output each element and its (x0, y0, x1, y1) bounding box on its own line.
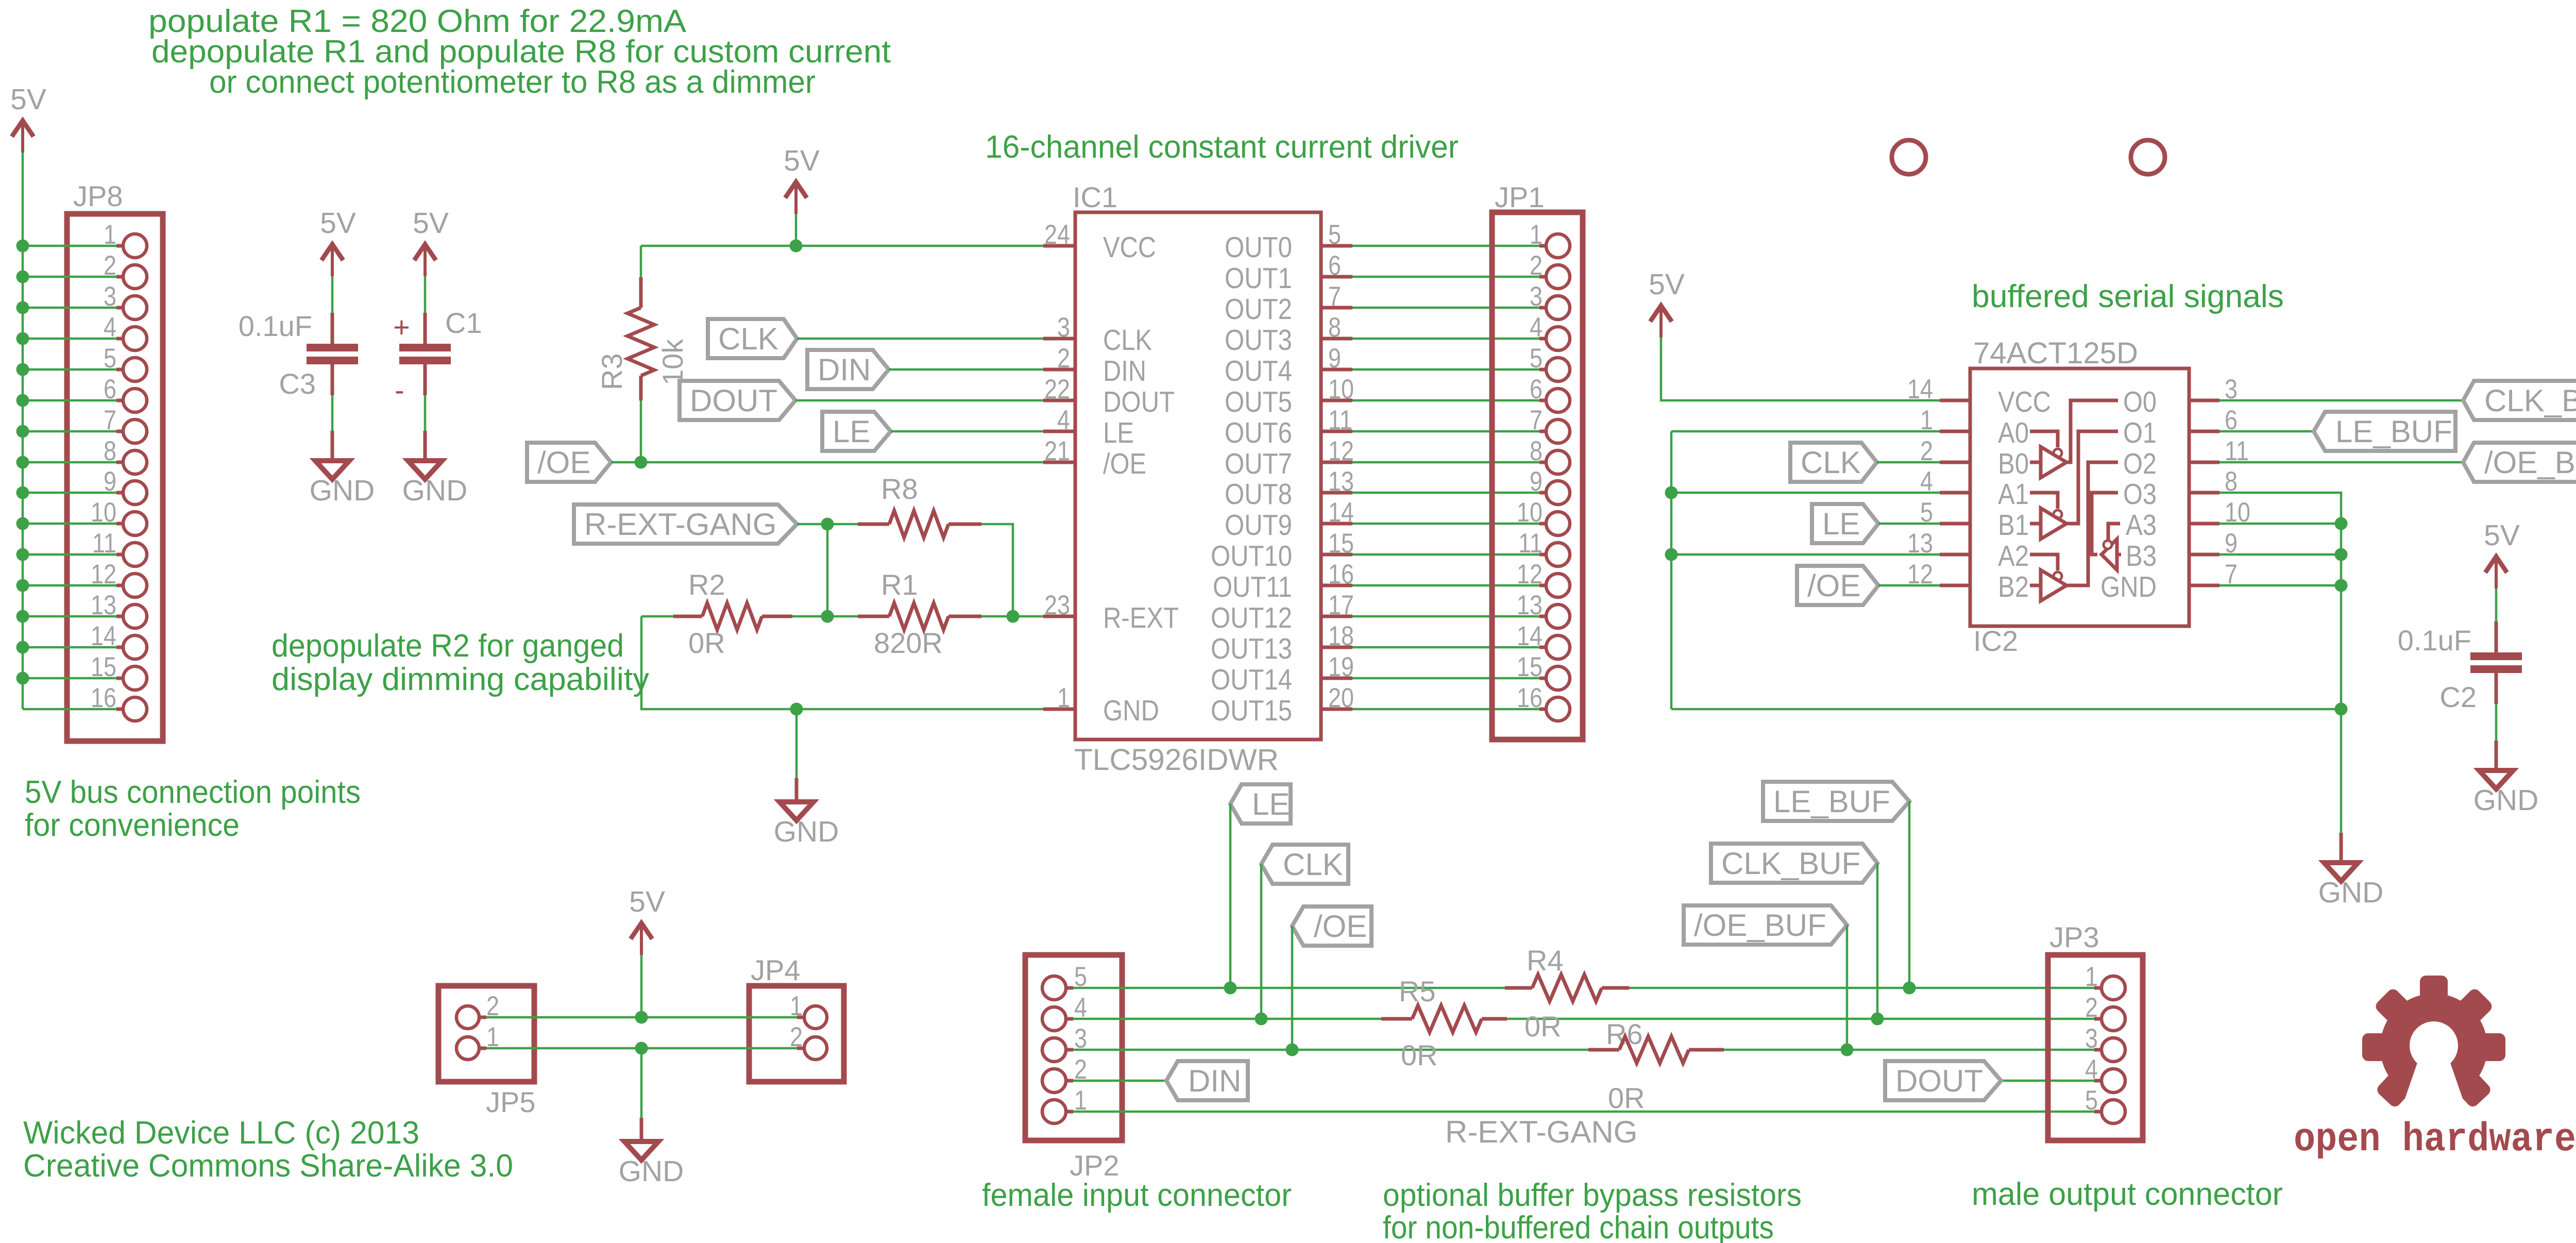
svg-text:O1: O1 (2123, 416, 2157, 449)
svg-text:20: 20 (1328, 683, 1354, 713)
svg-text:Wicked Device LLC (c) 2013: Wicked Device LLC (c) 2013 (23, 1115, 419, 1151)
svg-text:3: 3 (104, 281, 116, 312)
wire 5V to row (640, 955, 643, 1017)
net flag CLK_BUF (bottom) (1711, 844, 1877, 883)
pin stub JP1-13 (1539, 615, 1547, 618)
pin 4 stub of IC2 (A1) (1940, 491, 1970, 495)
junction on 5V bus at JP8 pin 10 (16, 517, 29, 530)
wire junction down to R-EXT row (826, 524, 829, 616)
pin stub JP8-16 (116, 708, 124, 711)
svg-text:for convenience: for convenience (25, 808, 240, 843)
pin 3 stub of IC1 (CLK) (1043, 337, 1075, 341)
wire node to R1 (827, 615, 858, 618)
svg-text:B0: B0 (1998, 447, 2029, 480)
svg-text:R1: R1 (881, 568, 918, 601)
svg-text:LE: LE (1822, 507, 1860, 541)
mounting hole H1 (1892, 140, 1926, 174)
pin circle JP8-13 (123, 604, 147, 628)
pin of R6 right (1689, 1048, 1724, 1052)
svg-text:11: 11 (1328, 405, 1352, 435)
svg-text:2: 2 (1920, 436, 1933, 466)
svg-text:GND: GND (619, 1155, 684, 1188)
junction CLK/row2 (1255, 1013, 1268, 1026)
wire IC2 A0 net (1671, 430, 1940, 433)
svg-text:A1: A1 (1998, 478, 2029, 511)
wire 5V to IC2 pin 14 (1661, 338, 1940, 400)
pin stub JP8-7 (116, 430, 124, 433)
wire IC1 OUT0 to JP1 pin 1 (1352, 245, 1539, 247)
svg-text:9: 9 (1328, 343, 1341, 374)
pin 1 stub of IC2 (A0) (1940, 430, 1970, 433)
wire R2 down to GND rail (641, 616, 1043, 709)
wire IC1 OUT11 to JP1 pin 12 (1352, 584, 1539, 587)
svg-text:3: 3 (1057, 312, 1070, 343)
pin circle JP8-10 (123, 512, 147, 535)
pin stub JP8-15 (116, 677, 124, 680)
pin 6 stub of IC2 (O1) (2189, 430, 2219, 433)
svg-text:OUT2: OUT2 (1225, 293, 1292, 326)
svg-text:16: 16 (1517, 683, 1543, 713)
svg-text:CLK: CLK (1801, 445, 1861, 480)
svg-text:16: 16 (1328, 559, 1354, 590)
svg-text:TLC5926IDWR: TLC5926IDWR (1074, 743, 1279, 777)
wire /OE to IC2 pin 12 (1878, 584, 1940, 587)
pin stub JP3-2 (2094, 1017, 2102, 1021)
pin circle JP8-14 (123, 635, 147, 659)
svg-text:1: 1 (1530, 220, 1543, 250)
svg-text:4: 4 (1057, 405, 1070, 435)
svg-text:/OE: /OE (1807, 568, 1860, 603)
net flag /OE_BUF (bottom) (1684, 905, 1847, 945)
svg-text:12: 12 (1517, 559, 1543, 590)
wire 5V bus to JP8 pin 2 (23, 276, 116, 278)
connector JP2 body (1025, 955, 1122, 1140)
svg-text:R-EXT-GANG: R-EXT-GANG (584, 507, 776, 542)
pin circle JP2-2 (1042, 1069, 1066, 1093)
svg-text:13: 13 (91, 590, 116, 620)
net flag CLK (IC1) (708, 319, 797, 358)
junction at 5V/VCC (790, 240, 803, 253)
pin of R3 bottom (639, 376, 643, 400)
pin stub JP8-5 (116, 368, 124, 372)
wire 5V bus to JP8 pin 4 (23, 338, 116, 340)
svg-text:R2: R2 (688, 568, 725, 601)
pin 5 stub of IC2 (B1) (1940, 522, 1970, 526)
wire CLK drop (1260, 864, 1263, 1019)
connector JP3 body (2048, 955, 2143, 1140)
wire /OE drop (1291, 926, 1294, 1050)
svg-text:VCC: VCC (1998, 385, 2051, 418)
svg-text:1: 1 (1920, 405, 1933, 435)
junction CLK_BUF/row2 (1871, 1013, 1884, 1026)
wire row1 JP2.5 to R4 (1073, 987, 1505, 989)
wire 5V bus to JP8 pin 15 (23, 677, 116, 680)
net flag /OE (bottom) (1292, 906, 1371, 946)
svg-text:R-EXT: R-EXT (1103, 601, 1179, 634)
pin 13 stub of IC2 (A2) (1940, 553, 1970, 557)
pin circle JP1-11 (1546, 543, 1570, 566)
junction on 5V bus at JP8 pin 15 (16, 672, 29, 685)
svg-text:DOUT: DOUT (690, 383, 777, 418)
resistor R2 (702, 603, 762, 630)
pin 20 stub of IC1 (OUT15) (1321, 708, 1352, 711)
wire IC1 OUT10 to JP1 pin 11 (1352, 553, 1539, 556)
svg-text:11: 11 (1518, 528, 1543, 559)
pin of R8 left (858, 523, 889, 526)
resistor R5 (1412, 1005, 1482, 1032)
svg-text:/OE: /OE (1314, 909, 1367, 944)
pin stub JP2-5 (1066, 986, 1073, 990)
svg-text:OUT4: OUT4 (1225, 355, 1292, 388)
wire 5V bus to JP8 pin 11 (23, 553, 116, 556)
svg-text:7: 7 (1530, 405, 1543, 435)
pin stub JP1-1 (1539, 244, 1547, 248)
svg-text:12: 12 (1328, 436, 1354, 466)
svg-text:6: 6 (1530, 374, 1543, 405)
svg-text:OUT10: OUT10 (1211, 540, 1292, 573)
pin stub JP1-5 (1539, 368, 1547, 372)
pin stub JP8-4 (116, 337, 124, 341)
pin stub JP8-13 (116, 615, 124, 618)
connector JP1 body (1492, 212, 1583, 740)
pin circle JP8-2 (123, 265, 147, 289)
wire row to GND (640, 1048, 643, 1118)
svg-text:5V: 5V (413, 207, 449, 240)
junction on 5V bus at JP8 pin 3 (16, 301, 29, 314)
net flag LE (IC1) (822, 412, 891, 451)
svg-text:/OE: /OE (537, 445, 590, 480)
pin 12 stub of IC2 (B2) (1940, 584, 1970, 587)
pin 5 stub of IC1 (OUT0) (1321, 244, 1352, 248)
pin 1 stub of IC1 (GND) (1043, 708, 1075, 711)
wire R1 to IC1 pin 23 (981, 615, 1043, 618)
svg-text:LE_BUF: LE_BUF (1773, 784, 1890, 819)
svg-text:0.1uF: 0.1uF (2398, 624, 2471, 657)
wire 5V bus to JP8 pin 12 (23, 584, 116, 587)
svg-text:13: 13 (1328, 466, 1354, 497)
svg-text:0R: 0R (688, 627, 725, 659)
pin circle JP8-12 (123, 574, 147, 597)
net flag /OE_BUF (IC2) (2463, 443, 2576, 482)
svg-text:open hardware: open hardware (2294, 1117, 2576, 1163)
pin of C3 top (331, 313, 334, 344)
svg-text:optional buffer bypass resisto: optional buffer bypass resistors (1383, 1178, 1802, 1213)
wire IC1 OUT13 to JP1 pin 14 (1352, 646, 1539, 649)
junction on 5V bus at JP8 pin 13 (16, 610, 29, 623)
junction GND rail (790, 703, 803, 716)
pin 3 stub of IC2 (O0) (2189, 399, 2219, 402)
wire 5V bus to JP8 pin 6 (23, 399, 116, 402)
wire 5V bus to JP8 pin 13 (23, 615, 116, 618)
pin stub JP1-6 (1539, 399, 1547, 402)
junction right bus bottom (2335, 703, 2348, 716)
pin of C3 bottom (331, 364, 334, 395)
pin circle JP3-1 (2102, 976, 2125, 1000)
pin stub JP2-2 (1066, 1079, 1073, 1083)
pin stub JP8-10 (116, 522, 124, 526)
wire IC2 bus to pin 13 (1671, 553, 1940, 556)
pin circle JP2-4 (1042, 1007, 1066, 1031)
svg-text:4: 4 (104, 312, 116, 343)
wire GND rail drop (795, 709, 798, 778)
svg-text:OUT12: OUT12 (1211, 601, 1292, 634)
wire JP5.1 to JP4.2 (486, 1047, 797, 1050)
svg-text:OUT8: OUT8 (1225, 478, 1292, 511)
wire /OE to IC1 pin 21 (611, 461, 1043, 464)
wire IC1 OUT3 to JP1 pin 4 (1352, 338, 1539, 340)
svg-text:4: 4 (1530, 312, 1543, 343)
svg-text:15: 15 (1517, 652, 1543, 682)
svg-text:GND: GND (402, 474, 468, 507)
resistor R8 (889, 511, 948, 537)
svg-text:JP5: JP5 (486, 1086, 536, 1118)
pin of R6 left (1588, 1048, 1619, 1052)
pin circle JP8-7 (123, 419, 147, 443)
svg-text:0R: 0R (1401, 1039, 1438, 1071)
pin circle JP2-1 (1042, 1100, 1066, 1123)
pin circle JP5-2 (456, 1006, 479, 1029)
pin stub JP8-14 (116, 646, 124, 649)
pin circle JP8-16 (123, 697, 147, 721)
wire IC1 OUT4 to JP1 pin 5 (1352, 368, 1539, 371)
svg-text:10: 10 (1328, 374, 1354, 405)
pin of R1 right (948, 615, 981, 618)
ground GND (C3) (315, 461, 349, 479)
wire row3 R6 to JP3.3 (1724, 1049, 2094, 1051)
svg-text:OUT0: OUT0 (1225, 231, 1292, 264)
pin stub JP1-14 (1539, 646, 1547, 649)
connector JP5 body (438, 986, 534, 1082)
svg-text:DIN: DIN (818, 352, 871, 387)
pin stub JP3-5 (2094, 1110, 2102, 1114)
pin circle JP8-1 (123, 234, 147, 258)
svg-text:8: 8 (1328, 312, 1341, 343)
svg-text:GND: GND (2100, 570, 2157, 603)
svg-text:12: 12 (91, 559, 116, 590)
svg-text:23: 23 (1044, 590, 1070, 620)
svg-text:R4: R4 (1527, 944, 1564, 977)
svg-text:5: 5 (1530, 343, 1543, 374)
svg-text:male output connector: male output connector (1972, 1177, 2283, 1212)
resistor R6 (1619, 1036, 1689, 1063)
wire C2 to GND (2495, 704, 2498, 741)
pin 13 stub of IC1 (OUT8) (1321, 491, 1352, 495)
svg-text:OUT6: OUT6 (1225, 416, 1292, 449)
wire O2 to /OE_BUF (2219, 461, 2463, 464)
pin of R3 top (639, 277, 643, 308)
junction IC2 bus A1 (1665, 486, 1678, 499)
wire pin 10 to right bus (2219, 523, 2341, 525)
svg-text:9: 9 (1530, 466, 1543, 497)
pin to GND (C2) (2495, 741, 2498, 770)
pin stub JP5-1 (479, 1047, 486, 1050)
pin circle JP1-3 (1546, 296, 1570, 320)
svg-text:14: 14 (1328, 497, 1354, 528)
junction 5V/JP5.2 (635, 1011, 648, 1024)
pin 9 stub of IC2 (B3) (2189, 553, 2219, 557)
pin circle JP8-6 (123, 389, 147, 412)
wire LE_BUF drop (1908, 801, 1911, 988)
svg-text:LE: LE (1252, 787, 1290, 821)
svg-text:2: 2 (2085, 993, 2098, 1023)
pin circle JP4-2 (804, 1037, 827, 1060)
pin circle JP1-13 (1546, 604, 1570, 628)
wire 5V arrow to VCC net (795, 214, 798, 246)
junction on 5V bus at JP8 pin 1 (16, 240, 29, 253)
capacitor C2 (2470, 652, 2522, 660)
wire DOUT to IC1 pin 22 (795, 399, 1043, 402)
svg-text:17: 17 (1328, 590, 1354, 620)
svg-text:5: 5 (1328, 220, 1341, 250)
wire 5V bus to JP8 pin 5 (23, 368, 116, 371)
svg-text:6: 6 (1328, 250, 1341, 281)
svg-text:820R: 820R (874, 627, 943, 659)
svg-text:JP4: JP4 (751, 954, 801, 986)
pin circle JP8-5 (123, 358, 147, 381)
junction R1/R-EXT pin (1007, 610, 1020, 623)
svg-text:1: 1 (2085, 962, 2098, 992)
wire 5V bus to JP8 pin 3 (23, 307, 116, 309)
wire 5V bus vertical (22, 153, 24, 709)
pin stub JP1-4 (1539, 337, 1547, 341)
wire row2 JP2.4 to R5 (1073, 1018, 1381, 1020)
pin stub JP8-6 (116, 399, 124, 402)
ground GND (under IC1) (779, 802, 814, 820)
open hardware logo gear (2362, 976, 2505, 1109)
svg-text:OUT14: OUT14 (1211, 663, 1292, 696)
junction on 5V bus at JP8 pin 7 (16, 425, 29, 438)
pin 9 stub of IC1 (OUT4) (1321, 368, 1352, 372)
pin stub JP2-3 (1066, 1048, 1073, 1052)
wire 5V to C3 (331, 276, 334, 313)
wire IC2 left bus (1670, 431, 1673, 709)
svg-text:74ACT125D: 74ACT125D (1973, 337, 2138, 370)
wire 5V bus to JP8 pin 14 (23, 646, 116, 649)
svg-text:2: 2 (1530, 250, 1543, 281)
svg-text:GND: GND (2473, 784, 2539, 817)
pin circle JP1-15 (1546, 666, 1570, 690)
wire row2 R5 to JP3.2 (1507, 1018, 2094, 1020)
pin 17 stub of IC1 (OUT12) (1321, 615, 1352, 618)
junction on 5V bus at JP8 pin 8 (16, 456, 29, 469)
svg-text:5V: 5V (629, 885, 665, 918)
svg-text:7: 7 (1328, 281, 1341, 312)
svg-text:10: 10 (91, 497, 116, 528)
svg-text:/OE_BUF: /OE_BUF (1694, 908, 1826, 943)
pin 8 stub of IC2 (O3) (2189, 491, 2219, 495)
wire 5V bus to JP8 pin 16 (23, 708, 116, 711)
pin stub JP3-1 (2094, 986, 2102, 990)
pin stub JP8-1 (116, 244, 124, 248)
wire row1 R4 to JP3.1 (1629, 987, 2094, 989)
svg-text:Creative Commons Share-Alike 3: Creative Commons Share-Alike 3.0 (23, 1148, 513, 1184)
pin circle JP3-5 (2102, 1100, 2125, 1123)
junction IC2 bus A2 (1665, 548, 1678, 561)
svg-text:depopulate R2 for ganged: depopulate R2 for ganged (272, 628, 624, 664)
wire VCC corner down to R3 (640, 246, 642, 277)
pin circle JP8-15 (123, 666, 147, 690)
wire IC1 OUT9 to JP1 pin 10 (1352, 523, 1539, 525)
junction on 5V bus at JP8 pin 6 (16, 394, 29, 407)
svg-text:5V: 5V (1649, 268, 1685, 301)
svg-text:JP1: JP1 (1495, 181, 1545, 213)
junction R3//OE (635, 456, 648, 469)
junction /OE_BUF/row3 (1841, 1044, 1854, 1056)
svg-text:R3: R3 (596, 353, 628, 390)
net flag DOUT (IC1) (680, 381, 795, 420)
svg-text:22: 22 (1044, 374, 1070, 405)
pin circle JP1-4 (1546, 327, 1570, 350)
pin stub JP4-2 (797, 1047, 804, 1050)
svg-text:4: 4 (2085, 1054, 2098, 1085)
wire row4 JP2.2 to DIN (1073, 1080, 1166, 1082)
svg-text:9: 9 (104, 466, 116, 497)
wire IC1 OUT8 to JP1 pin 9 (1352, 492, 1539, 494)
svg-text:CLK_BUF: CLK_BUF (2484, 383, 2576, 418)
svg-text:O0: O0 (2123, 385, 2157, 418)
wire O3 to right bus (2219, 493, 2341, 709)
junction right bus pin10 (2335, 517, 2348, 530)
pin stub JP1-15 (1539, 677, 1547, 680)
pin of R4 right (1602, 986, 1629, 990)
svg-text:5V: 5V (320, 207, 356, 240)
svg-text:O2: O2 (2123, 447, 2157, 480)
wire R2 left corner (641, 615, 673, 618)
ground GND (right bus) (2324, 863, 2358, 881)
svg-text:13: 13 (1517, 590, 1543, 620)
svg-text:14: 14 (1517, 621, 1543, 651)
svg-text:A0: A0 (1998, 416, 2029, 449)
svg-text:18: 18 (1328, 621, 1354, 651)
svg-text:OUT11: OUT11 (1213, 570, 1292, 603)
pin stub JP1-8 (1539, 461, 1547, 464)
pin stub JP1-9 (1539, 491, 1547, 495)
svg-text:5V: 5V (2484, 519, 2520, 552)
resistor R3 (628, 308, 654, 376)
svg-text:DOUT: DOUT (1895, 1064, 1983, 1098)
svg-text:11: 11 (92, 528, 116, 559)
svg-text:R8: R8 (881, 473, 918, 505)
pin stub JP1-10 (1539, 522, 1547, 526)
pin of R2 right (762, 615, 792, 618)
pin stub JP1-7 (1539, 430, 1547, 433)
net flag DIN (IC1) (807, 350, 889, 389)
pin stub JP8-2 (116, 275, 124, 279)
svg-text:5: 5 (2085, 1085, 2098, 1116)
svg-text:C2: C2 (2439, 681, 2477, 713)
pin stub JP8-11 (116, 553, 124, 557)
pin stub JP5-2 (479, 1016, 486, 1019)
pin circle JP8-3 (123, 296, 147, 320)
capacitor C1 (399, 344, 451, 351)
svg-text:13: 13 (1907, 528, 1933, 559)
pin to GND (JP5) (640, 1118, 643, 1141)
svg-text:female input connector: female input connector (982, 1178, 1292, 1213)
svg-text:5: 5 (1920, 497, 1933, 528)
svg-text:B1: B1 (1998, 509, 2029, 542)
pin of R4 left (1505, 986, 1532, 990)
pin 11 stub of IC2 (O2) (2189, 461, 2219, 464)
pin 4 stub of IC1 (LE) (1043, 430, 1075, 433)
junction LE_BUF/row1 (1903, 982, 1916, 995)
svg-text:0R: 0R (1524, 1010, 1562, 1043)
pin 6 stub of IC1 (OUT1) (1321, 275, 1352, 279)
pin 2 stub of IC1 (DIN) (1043, 368, 1075, 372)
junction R-EXT-GANG/R8 (821, 518, 834, 531)
svg-text:GND: GND (310, 474, 375, 507)
wire node to R8 (827, 523, 858, 526)
wire JP5.2 to JP4.1 (486, 1016, 797, 1019)
